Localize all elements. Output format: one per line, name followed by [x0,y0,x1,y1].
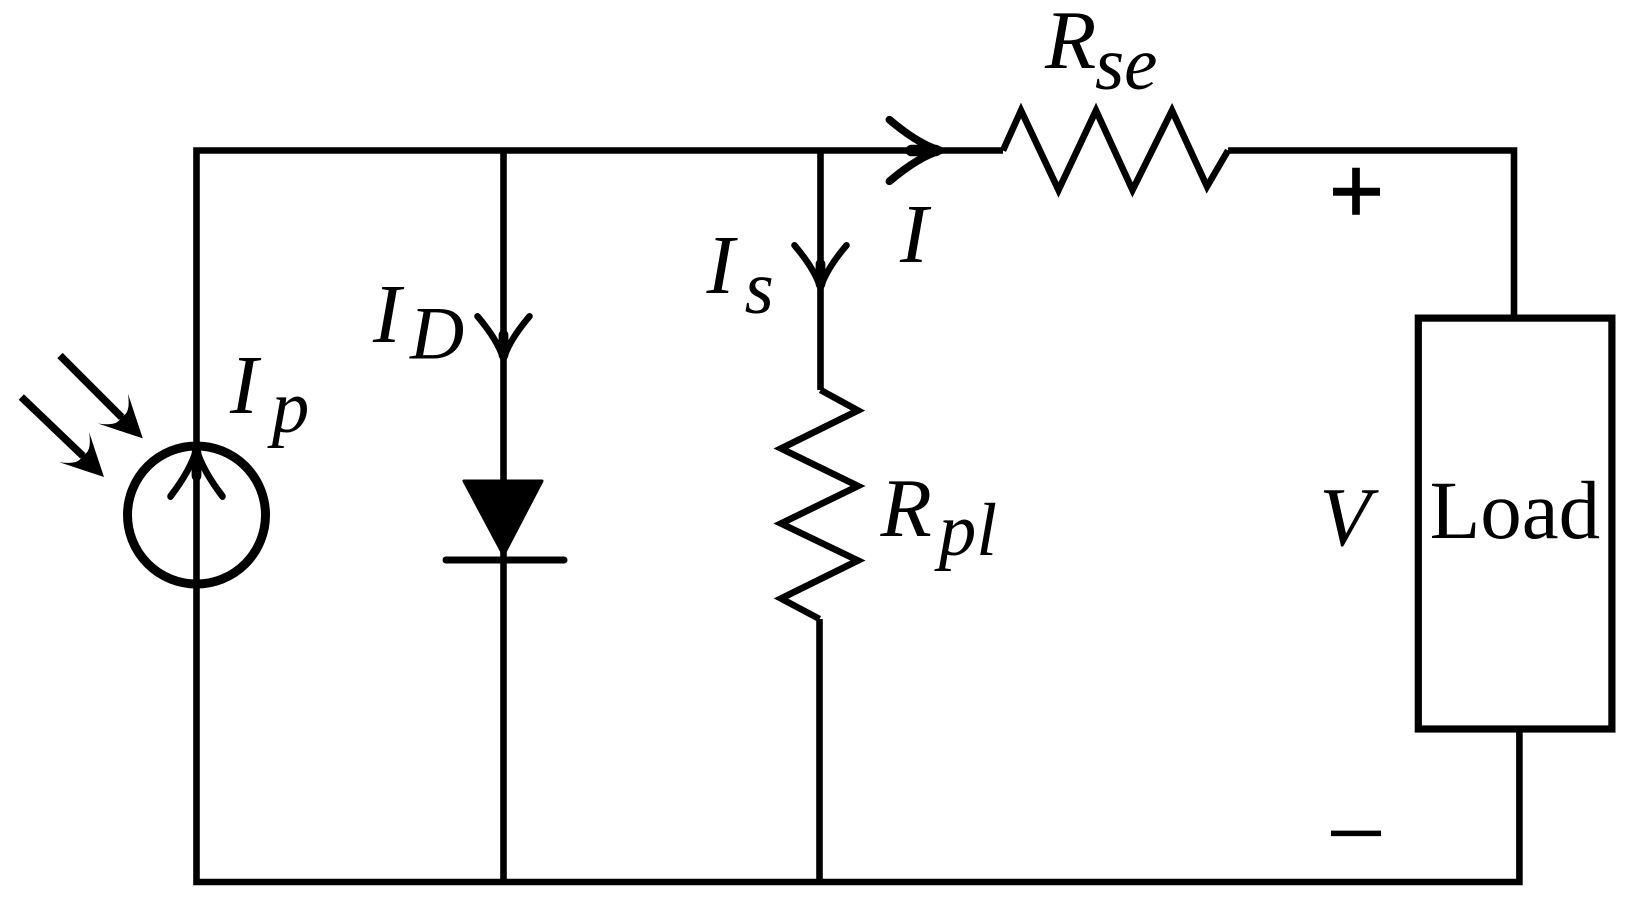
svg-text:se: se [1095,23,1157,106]
svg-text:I: I [229,339,262,432]
svg-text:pl: pl [934,489,997,572]
svg-text:I: I [899,188,932,281]
svg-text:D: D [409,293,464,376]
svg-text:V: V [1319,471,1379,564]
svg-text:R: R [880,462,932,555]
svg-text:I: I [372,268,405,361]
svg-text:I: I [706,219,739,312]
svg-text:Load: Load [1430,464,1601,556]
svg-text:s: s [745,247,774,330]
svg-text:p: p [267,366,310,449]
svg-text:R: R [1044,0,1096,87]
